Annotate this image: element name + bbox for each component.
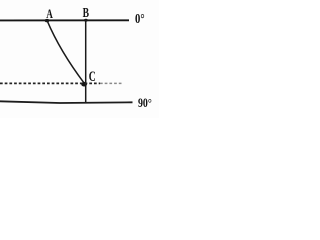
wire: dashed horizontal line through C (faded right part) — [100, 82, 122, 84]
node A junction dot — [45, 19, 50, 22]
wire: bottom horizontal 90-degree line — [0, 101, 133, 103]
background — [0, 0, 159, 118]
svg-text:90°: 90° — [138, 96, 152, 110]
wire: vertical line from B down to 90-degree line — [85, 20, 87, 103]
svg-text:0°: 0° — [135, 11, 145, 26]
wire: top horizontal 0-degree line — [0, 19, 129, 21]
wire: dashed horizontal line through C (dark left part) — [0, 82, 100, 84]
svg-text:B: B — [83, 5, 89, 20]
wire: diagonal line from A to C — [47, 21, 84, 84]
svg-text:A: A — [46, 6, 53, 21]
node C junction blob — [81, 82, 87, 87]
node B junction dot — [84, 19, 88, 22]
